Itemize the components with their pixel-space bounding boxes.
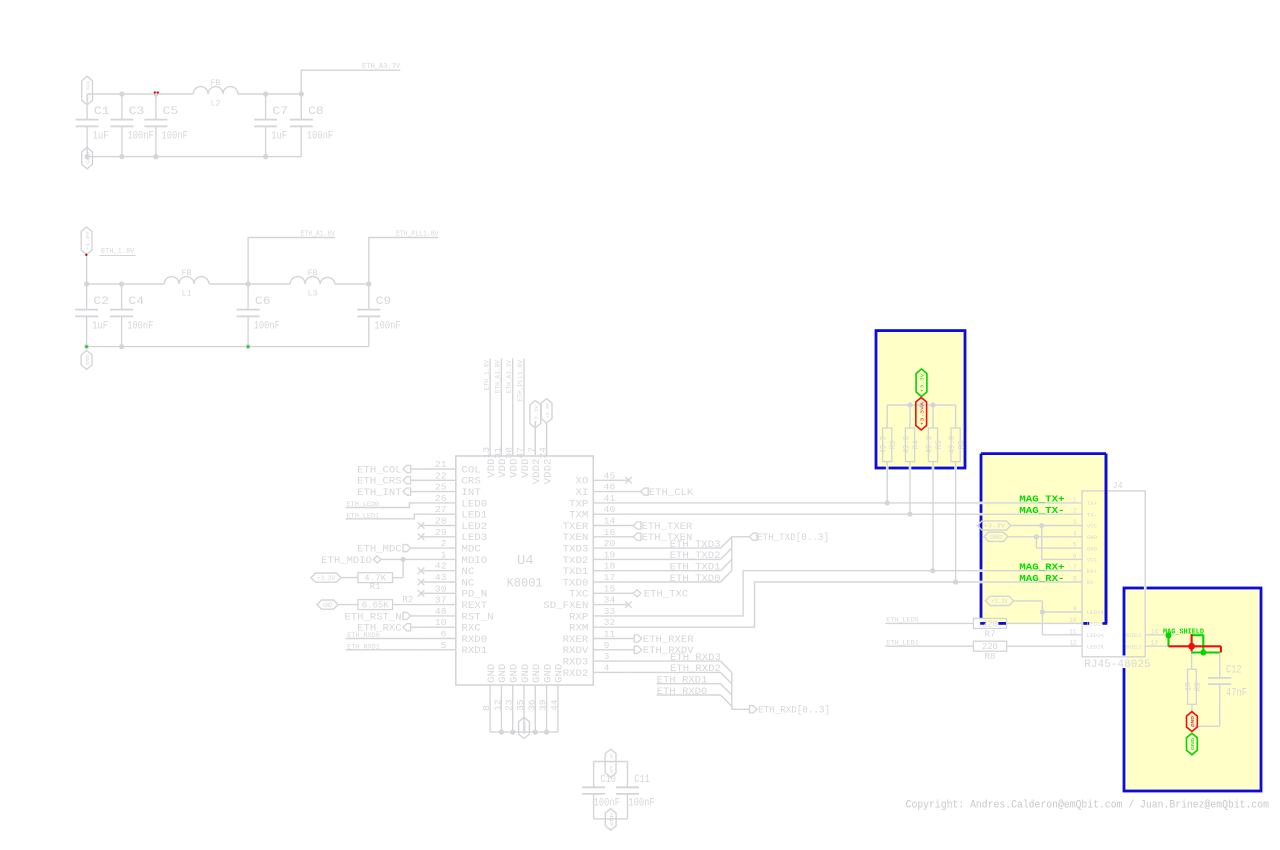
svg-text:SHIELD: SHIELD [1126,644,1142,650]
svg-text:ETH_A3.3V: ETH_A3.3V [362,63,401,71]
svg-text:100nF: 100nF [307,131,333,143]
svg-text:GND: GND [520,664,532,683]
svg-text:39: 39 [538,699,549,711]
svg-text:49.9: 49.9 [880,436,889,454]
svg-text:19: 19 [604,549,616,560]
svg-text:C8: C8 [308,106,324,118]
svg-text:ETH_LED1: ETH_LED1 [347,512,380,520]
svg-text:18: 18 [604,561,616,572]
svg-text:ETH_A1.8V: ETH_A1.8V [495,360,502,393]
svg-text:25: 25 [435,482,447,493]
svg-text:L3: L3 [308,289,318,299]
svg-text:LED0: LED0 [461,498,487,510]
svg-text:GND: GND [1087,545,1098,552]
svg-text:GND: GND [609,813,615,826]
svg-text:ETH_CRS: ETH_CRS [357,477,401,488]
svg-text:K8001: K8001 [507,576,543,591]
svg-text:33: 33 [604,606,616,617]
svg-text:ETH_RXD1: ETH_RXD1 [347,644,380,652]
svg-text:46: 46 [604,482,616,493]
svg-text:GND: GND [486,664,498,683]
svg-text:4: 4 [604,662,610,673]
svg-text:Copyright: Andres.Calderon@emQ: Copyright: Andres.Calderon@emQbit.com / … [906,800,1270,812]
svg-text:LED1A: LED1A [1087,609,1105,616]
svg-text:TXD1: TXD1 [563,566,589,578]
svg-text:10: 10 [435,617,447,628]
svg-text:REXT: REXT [461,600,487,612]
svg-text:100nF: 100nF [628,798,654,810]
svg-text:100nF: 100nF [162,131,188,143]
svg-text:RXDV: RXDV [563,645,590,657]
svg-text:GND: GND [1190,738,1196,751]
svg-text:+3.3V: +3.3V [317,575,335,582]
svg-text:13: 13 [481,447,492,459]
svg-text:ETH_PLL1.8V: ETH_PLL1.8V [517,360,524,402]
svg-text:220: 220 [982,619,998,629]
svg-text:C2: C2 [93,296,109,308]
svg-text:GND: GND [531,664,543,683]
svg-text:RJ45-48025: RJ45-48025 [1084,659,1150,671]
svg-text:LED2: LED2 [461,521,487,533]
svg-text:R4: R4 [912,440,921,449]
svg-text:1uF: 1uF [93,131,109,143]
svg-text:100nF: 100nF [128,131,154,143]
svg-text:RXD3: RXD3 [563,657,589,669]
svg-text:11: 11 [604,629,616,640]
svg-text:7: 7 [1073,564,1077,571]
svg-text:48: 48 [435,606,447,617]
svg-text:100nF: 100nF [254,321,280,333]
svg-text:TXD0: TXD0 [563,577,589,589]
svg-text:ETH_RXD0: ETH_RXD0 [657,687,708,698]
svg-text:L1: L1 [182,289,192,299]
svg-text:+1.8V: +1.8V [85,231,91,250]
svg-text:ETH_LED0: ETH_LED0 [886,617,919,625]
svg-text:NC: NC [461,566,474,578]
svg-text:C12: C12 [1226,665,1242,677]
svg-text:30: 30 [435,583,447,594]
svg-text:1uF: 1uF [271,131,287,143]
svg-text:ETH_1.8V: ETH_1.8V [101,248,135,256]
svg-text:13: 13 [1151,640,1159,647]
svg-text:TX+: TX+ [1087,500,1097,507]
svg-text:R9: R9 [1194,682,1203,691]
svg-text:C11: C11 [634,774,650,786]
svg-text:GND: GND [1087,534,1098,541]
svg-text:+3.3VA: +3.3VA [85,80,91,100]
svg-text:ETH_RXD[0..3]: ETH_RXD[0..3] [758,705,830,717]
svg-text:VDD: VDD [509,459,521,478]
svg-text:8: 8 [1073,576,1077,583]
svg-text:RXD1: RXD1 [461,645,487,657]
svg-text:ETH_RXER: ETH_RXER [643,635,694,646]
svg-text:17: 17 [604,572,616,583]
svg-text:VCC: VCC [1087,557,1098,564]
svg-text:R1: R1 [370,582,381,592]
svg-text:26: 26 [435,493,447,504]
svg-text:1uF: 1uF [92,321,108,333]
svg-text:C4: C4 [128,296,144,308]
svg-text:ETH_RXD0: ETH_RXD0 [347,632,380,640]
svg-text:MAG_RX+: MAG_RX+ [1019,562,1065,573]
svg-text:SD_FXEN: SD_FXEN [543,600,588,612]
svg-text:220: 220 [982,642,998,652]
svg-text:8: 8 [481,705,492,711]
svg-text:31: 31 [492,447,503,459]
svg-text:27: 27 [435,504,447,515]
svg-text:ETH_INT: ETH_INT [357,488,401,499]
svg-text:14: 14 [604,516,616,527]
svg-text:LED3: LED3 [461,532,487,544]
svg-text:1: 1 [441,549,447,560]
svg-text:ETH_TXD2: ETH_TXD2 [670,551,721,562]
svg-text:RXER: RXER [563,634,590,646]
svg-text:GND: GND [522,722,528,734]
svg-text:RX-: RX- [1087,579,1097,586]
svg-text:TXC: TXC [569,589,588,601]
svg-text:FB: FB [308,268,318,278]
svg-text:100nF: 100nF [594,798,620,810]
svg-text:R7: R7 [985,629,996,639]
svg-text:CRS: CRS [461,476,480,488]
svg-text:1M: 1M [1184,682,1193,691]
svg-text:C5: C5 [163,106,179,118]
svg-text:ETH_CLK: ETH_CLK [649,488,693,499]
svg-text:RXM: RXM [569,623,588,635]
svg-text:GND: GND [509,664,521,683]
svg-text:LED2A: LED2A [1087,632,1105,639]
svg-text:34: 34 [604,595,616,606]
svg-text:INT: INT [461,487,480,499]
svg-text:15: 15 [604,583,616,594]
svg-text:47nF: 47nF [1226,688,1247,700]
svg-text:ETH_LED1: ETH_LED1 [886,639,919,647]
svg-text:100nF: 100nF [127,321,153,333]
svg-text:ETH_MDC: ETH_MDC [357,545,401,556]
svg-text:2: 2 [441,538,447,549]
svg-text:U4: U4 [517,553,534,569]
svg-text:ETH_A3.3V: ETH_A3.3V [506,360,513,393]
svg-text:LED2K: LED2K [1087,643,1105,650]
svg-text:20: 20 [604,538,616,549]
svg-text:ETH_RXD2: ETH_RXD2 [670,664,721,675]
svg-text:ETH_TXD0: ETH_TXD0 [670,574,721,585]
svg-text:ETH_PLL1.8V: ETH_PLL1.8V [396,231,439,239]
svg-text:NC: NC [461,577,474,589]
svg-text:+3.3VA: +3.3VA [920,402,925,426]
svg-text:R6: R6 [958,440,967,449]
svg-text:ETH_TXD1: ETH_TXD1 [670,563,721,574]
svg-text:TXP: TXP [569,498,588,510]
svg-text:+3.3V: +3.3V [545,403,551,419]
svg-text:ETH_COL: ETH_COL [357,465,401,476]
svg-text:SHIELD: SHIELD [1126,633,1142,639]
svg-text:35: 35 [515,699,526,711]
svg-text:+3.3V: +3.3V [534,405,540,424]
svg-text:+3.3V: +3.3V [920,373,926,392]
svg-text:44: 44 [549,699,560,711]
svg-text:PD_N: PD_N [461,589,487,601]
svg-text:100nF: 100nF [374,321,400,333]
svg-text:VDD: VDD [486,459,498,478]
svg-text:RXP: RXP [569,611,588,623]
svg-text:ETH_MDIO: ETH_MDIO [321,556,372,567]
svg-text:5: 5 [441,640,447,651]
svg-text:MDC: MDC [461,544,480,556]
svg-text:ETH_TXER: ETH_TXER [642,522,693,533]
svg-text:ETH_TXD[0..3]: ETH_TXD[0..3] [757,532,829,544]
svg-text:GND: GND [85,152,91,165]
svg-text:49.9: 49.9 [903,436,912,454]
svg-text:36: 36 [526,699,537,711]
svg-text:37: 37 [435,595,447,606]
svg-text:VDD2: VDD2 [542,459,554,485]
svg-text:L2: L2 [211,99,221,109]
svg-text:ETH_RST_N: ETH_RST_N [345,612,402,623]
svg-text:GND: GND [497,664,509,683]
svg-text:MAG_SHIELD: MAG_SHIELD [1163,629,1204,637]
svg-text:TXM: TXM [569,510,588,522]
svg-text:21: 21 [435,459,447,470]
svg-text:ETH_RXD3: ETH_RXD3 [670,653,721,664]
svg-text:R3: R3 [889,440,898,449]
svg-text:C3: C3 [129,106,145,118]
svg-text:GND: GND [990,534,1002,541]
svg-text:28: 28 [435,516,447,527]
svg-text:23: 23 [504,699,515,711]
svg-text:ETH_TXC: ETH_TXC [644,590,688,601]
svg-text:32: 32 [604,617,616,628]
svg-text:TXER: TXER [563,521,590,533]
svg-text:RXD0: RXD0 [461,634,487,646]
svg-text:XO: XO [576,476,589,488]
svg-text:TXD2: TXD2 [563,555,589,567]
svg-text:GND: GND [542,664,554,683]
svg-text:ETH_1.8V: ETH_1.8V [611,753,615,773]
svg-text:FB: FB [182,268,192,278]
svg-text:41: 41 [604,493,616,504]
svg-text:TX-: TX- [1087,511,1097,518]
svg-text:42: 42 [435,561,447,572]
svg-text:COL: COL [461,464,480,476]
svg-text:J4: J4 [1113,480,1123,491]
svg-text:GND: GND [554,664,566,683]
svg-text:R2: R2 [402,595,413,605]
svg-text:GND: GND [323,602,332,609]
svg-text:MAG_TX+: MAG_TX+ [1019,494,1065,505]
svg-text:40: 40 [604,504,616,515]
svg-text:RXD2: RXD2 [563,668,589,680]
svg-text:RST_N: RST_N [461,611,493,623]
svg-text:6.65K: 6.65K [362,601,390,611]
svg-text:ETH_A1.8V: ETH_A1.8V [301,231,336,239]
svg-text:LED1K: LED1K [1087,621,1105,628]
svg-text:47: 47 [515,447,526,459]
svg-text:2: 2 [1073,508,1077,515]
svg-text:+3.3V: +3.3V [983,523,1005,530]
svg-text:6: 6 [441,629,447,640]
svg-text:GND: GND [85,355,91,365]
svg-text:MDIO: MDIO [461,555,487,567]
svg-text:GND: GND [1190,716,1196,727]
svg-text:C6: C6 [255,296,271,308]
svg-text:MAG_TX-: MAG_TX- [1019,505,1064,516]
svg-text:TXD3: TXD3 [563,544,589,556]
svg-text:3: 3 [604,651,610,662]
svg-text:VCC: VCC [1087,523,1098,530]
svg-text:ETH_RXD1: ETH_RXD1 [657,676,708,687]
svg-text:RX+: RX+ [1087,568,1097,575]
svg-text:1: 1 [1073,496,1077,503]
svg-text:VDD: VDD [520,459,532,478]
svg-text:RXC: RXC [461,623,480,635]
svg-text:ETH_TXD3: ETH_TXD3 [670,540,721,551]
svg-text:ETH_LED0: ETH_LED0 [347,501,380,509]
svg-text:38: 38 [504,447,515,459]
svg-text:49.9: 49.9 [926,436,935,454]
svg-text:ETH_1.8V: ETH_1.8V [483,360,490,390]
svg-text:+3.3V: +3.3V [991,598,1008,605]
svg-text:16: 16 [604,527,616,538]
svg-text:49.9: 49.9 [948,436,957,454]
svg-text:C9: C9 [376,296,392,308]
svg-text:43: 43 [435,572,447,583]
svg-text:XI: XI [576,487,589,499]
svg-text:C7: C7 [272,106,288,118]
svg-text:22: 22 [435,470,447,481]
svg-text:45: 45 [604,470,616,481]
svg-text:R5: R5 [935,440,944,449]
svg-text:R8: R8 [985,652,996,662]
svg-text:TXEN: TXEN [563,532,589,544]
svg-text:29: 29 [435,527,447,538]
svg-text:9: 9 [604,640,610,651]
svg-text:VDD2: VDD2 [531,459,543,485]
svg-text:12: 12 [492,699,503,711]
svg-text:MAG_RX-: MAG_RX- [1019,573,1064,584]
svg-text:VDD: VDD [497,459,509,478]
svg-text:LED1: LED1 [461,510,487,522]
svg-text:FB: FB [211,78,221,88]
svg-text:C1: C1 [94,106,110,118]
svg-text:14: 14 [1151,628,1159,635]
